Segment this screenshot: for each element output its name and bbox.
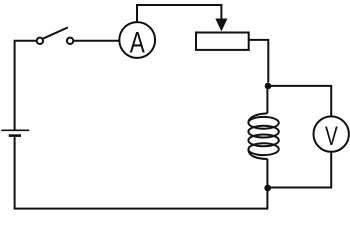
inductor coil L exit arc — [248, 149, 267, 159]
svg-text:V: V — [325, 121, 338, 151]
inductor coil L entry arc — [248, 113, 267, 122]
wire ammeter top to rheostat wiper — [137, 5, 221, 22]
wire battery top to switch — [15, 41, 37, 130]
wire coil bottom through node B to bottom rail — [266, 159, 268, 209]
wire rheostat right to node A — [249, 40, 269, 83]
inductor coil L turn 4 — [248, 143, 278, 155]
voltmeter V meter circle — [314, 116, 349, 151]
battery positive plate (long) — [1, 129, 29, 131]
bottom rail wire to battery negative — [15, 137, 269, 209]
switch S1 terminal circle left — [37, 38, 43, 44]
battery negative plate (short) — [9, 134, 21, 137]
switch S1 terminal circle right — [67, 38, 73, 44]
wire voltmeter bottom to node B — [268, 152, 331, 188]
inductor coil L turn 2 — [248, 126, 278, 138]
svg-text:A: A — [130, 26, 145, 59]
wire node A to voltmeter top — [268, 86, 331, 117]
inductor coil L turn 1 — [248, 117, 278, 129]
inductor coil L turn 3 — [248, 135, 278, 147]
wire switch to ammeter — [73, 40, 119, 42]
node A junction dot — [265, 83, 272, 90]
node B junction dot — [264, 185, 271, 192]
switch S1 lever (open) — [43, 27, 68, 38]
rheostat body rectangle — [196, 33, 249, 50]
rheostat wiper arrowhead — [215, 19, 227, 32]
ammeter A meter circle — [119, 22, 155, 58]
wire node A to coil top — [266, 86, 268, 114]
